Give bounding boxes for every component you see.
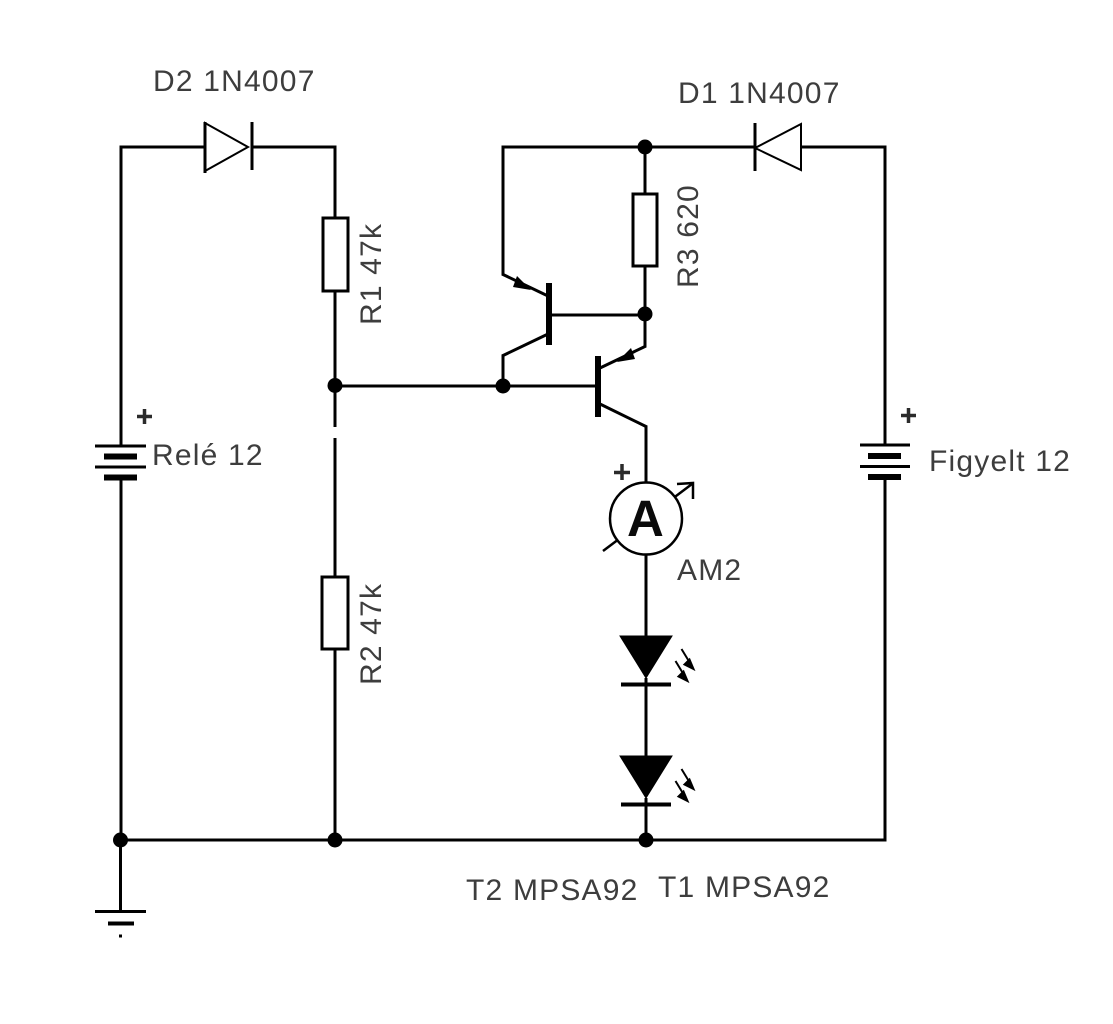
ammeter plus — [614, 464, 630, 480]
transistor T2 — [502, 146, 645, 387]
wire mid horizontal to T1 base — [335, 385, 595, 388]
node A dot — [328, 378, 343, 393]
wire R2 bottom — [334, 649, 337, 840]
svg-text:T2 MPSA92: T2 MPSA92 — [466, 874, 639, 907]
diode D1 — [755, 123, 801, 171]
diode D2 — [205, 122, 252, 173]
svg-text:AM2: AM2 — [677, 554, 742, 587]
node T2 collector dot — [496, 379, 511, 394]
wire left rail upper — [120, 146, 123, 447]
svg-text:R3 620: R3 620 — [672, 184, 705, 288]
LED D3 — [620, 636, 672, 685]
svg-text:R2 47k: R2 47k — [355, 583, 388, 685]
ground — [95, 840, 146, 936]
wire left rail lower — [120, 479, 123, 842]
wire below node upper piece — [334, 386, 337, 427]
wire R3 bottom — [644, 266, 647, 314]
node R2-bottom dot — [328, 833, 343, 848]
transistor T1 — [598, 314, 647, 483]
node top R3 dot — [638, 140, 653, 155]
LED D4 — [620, 756, 672, 805]
battery B2 plus — [901, 408, 916, 423]
resistor R1 — [323, 218, 348, 291]
bottom rail — [120, 839, 887, 842]
wire ammeter bottom to LED1 — [645, 554, 648, 638]
LED D4 arrows — [676, 769, 694, 801]
svg-text:D1 1N4007: D1 1N4007 — [678, 77, 841, 110]
wire right rail upper — [884, 146, 887, 446]
wire LED2 to bottom rail — [645, 798, 648, 840]
LED D3 arrows — [676, 649, 694, 681]
wire D2 cathode to R1 column — [252, 146, 337, 149]
wire LED1 to LED2 — [645, 678, 648, 758]
wire top-center rail — [503, 146, 755, 149]
battery B1 Rele — [95, 446, 146, 478]
wire below gap to R2 — [334, 438, 337, 577]
svg-text:A: A — [627, 490, 665, 547]
svg-text:Relé 12: Relé 12 — [152, 439, 264, 472]
wire right rail lower — [884, 479, 887, 842]
node ground dot — [113, 833, 128, 848]
resistor R2 — [322, 577, 348, 649]
wire R1 bottom to node — [334, 291, 337, 386]
wire D1 cathode rail to right — [801, 146, 887, 149]
svg-text:D2 1N4007: D2 1N4007 — [153, 65, 316, 98]
wire R3 top — [644, 147, 647, 194]
wire R1 column top — [334, 146, 337, 219]
battery B1 plus — [137, 409, 152, 424]
node B dot — [638, 307, 653, 322]
node LED bottom dot — [639, 833, 654, 848]
wire top-left rail — [120, 146, 206, 149]
svg-text:Figyelt 12: Figyelt 12 — [929, 445, 1071, 478]
battery B2 Figyelt — [860, 445, 910, 477]
ammeter arrow head — [677, 483, 693, 499]
svg-text:R1 47k: R1 47k — [355, 223, 388, 325]
ammeter AM2 arrow — [603, 484, 692, 551]
resistor R3 — [633, 194, 657, 266]
svg-text:T1 MPSA92: T1 MPSA92 — [658, 871, 831, 904]
ammeter AM2 — [610, 483, 682, 555]
